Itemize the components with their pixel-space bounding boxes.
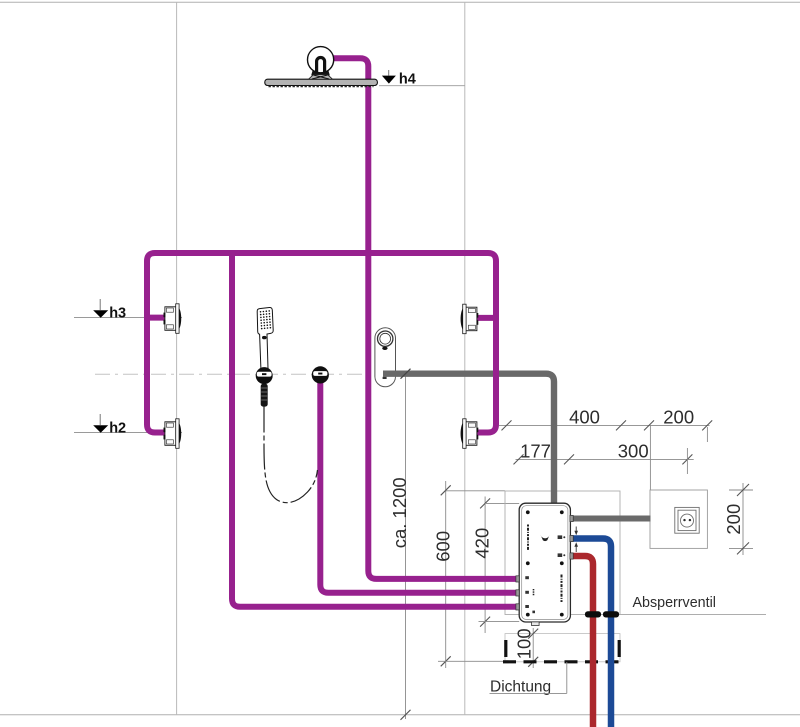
hand shower wall outlet <box>312 366 329 383</box>
svg-text:h3: h3 <box>109 305 126 321</box>
dimension 100 line <box>532 628 534 668</box>
hand shower hose <box>264 407 318 503</box>
socket circle <box>681 514 694 527</box>
screw bottom-right <box>560 613 564 617</box>
remote control oval <box>375 328 396 387</box>
tick 420 bottom <box>480 617 490 627</box>
tick 300 right <box>682 454 692 464</box>
flange cross left <box>314 75 330 79</box>
body jet upper left <box>164 304 182 334</box>
svg-text:177: 177 <box>520 440 551 461</box>
ext 200 top <box>729 489 753 491</box>
wall line left <box>176 2 178 715</box>
screw mid-left <box>526 561 530 565</box>
svg-text:Absperrventil: Absperrventil <box>633 595 716 611</box>
shut-off valve blue <box>603 611 619 617</box>
Dichtung leader <box>566 662 568 693</box>
tick 200s top <box>737 484 749 496</box>
connector stub right grey <box>570 515 573 521</box>
socket plate outer <box>675 507 699 533</box>
connector stub left 1 <box>516 576 519 582</box>
control unit inner line <box>522 506 568 620</box>
tick 100 top <box>528 629 538 639</box>
tick ca1200 top <box>401 369 411 379</box>
connector stub left 2 <box>516 590 519 596</box>
centerline hand shower height <box>95 373 552 375</box>
svg-text:h4: h4 <box>399 72 416 88</box>
shower head plate <box>265 79 378 85</box>
label strip left <box>527 525 529 552</box>
screw mid-right <box>560 561 564 565</box>
body jet upper right <box>461 304 479 334</box>
Dichtung underline <box>490 692 567 694</box>
h4 level line <box>379 85 465 87</box>
icon right lower <box>558 553 563 557</box>
dimension 420 line <box>484 497 486 634</box>
tiny mark bottom <box>532 611 535 614</box>
svg-text:400: 400 <box>569 406 600 427</box>
remote ring inner <box>380 333 391 344</box>
remote tick below pipe <box>383 377 387 379</box>
extension line socket right edge <box>706 427 708 442</box>
svg-text:300: 300 <box>618 440 649 461</box>
remote ring outer <box>378 331 393 346</box>
tick 600 top <box>441 485 451 495</box>
ext 200 bottom <box>729 547 753 549</box>
level marker h2 <box>99 414 101 425</box>
hand shower spray dots <box>260 310 272 329</box>
extension 600 bottom <box>438 660 505 662</box>
small dim arrow lower (pipe gap) <box>575 546 577 552</box>
tick 400 right <box>616 420 626 430</box>
dimension line chain top (400 / 200) <box>499 424 710 426</box>
tick ca1200 bottom <box>401 710 411 720</box>
svg-text:ca. 1200: ca. 1200 <box>389 477 410 548</box>
tick 100 bottom <box>528 657 538 667</box>
magenta stub jet upper right <box>477 315 497 321</box>
h3 level line <box>74 317 182 319</box>
tick 200 left <box>644 420 654 430</box>
connector stub left 3 <box>516 604 519 610</box>
small dim arrow upper (pipe gap) <box>575 527 577 533</box>
shut-off valve red <box>585 611 601 617</box>
construction box around control unit <box>505 491 620 615</box>
shower head flange <box>309 75 333 80</box>
icon right upper <box>558 535 563 539</box>
wall line right <box>464 2 466 715</box>
socket plate inner <box>678 510 696 530</box>
magenta stub jet upper left <box>147 315 166 321</box>
screw bottom-left <box>526 613 530 617</box>
extension line socket left edge <box>649 425 651 491</box>
svg-text:h2: h2 <box>109 420 126 436</box>
icon left stub3 <box>525 605 529 608</box>
svg-text:200: 200 <box>663 406 694 427</box>
tiny vertical text <box>533 589 535 596</box>
tick 177 left <box>514 454 524 464</box>
seal dash right <box>618 640 621 657</box>
control unit body <box>519 503 570 622</box>
logo mark center <box>540 535 549 542</box>
red pipe hot water <box>570 556 593 727</box>
magenta pipe shower head drop <box>331 58 517 579</box>
shower head neck dark <box>311 68 330 75</box>
icon left stub2 <box>525 591 529 594</box>
grey pipe box to socket <box>570 516 651 522</box>
Absperrventil reference line <box>620 614 766 616</box>
drain stub bottom <box>532 622 540 626</box>
h2 level line <box>74 432 182 434</box>
hand shower holder <box>256 367 273 384</box>
dimension line chain second (177 / 300) <box>516 458 694 460</box>
tick 420 top <box>480 498 490 508</box>
connector stub right red <box>570 553 573 559</box>
socket pin holes <box>683 519 685 521</box>
grey pipe from control to box <box>383 374 554 505</box>
svg-text:200: 200 <box>723 504 744 535</box>
ball joint <box>308 47 334 73</box>
wall socket outer box <box>650 490 707 548</box>
hand shower head <box>257 307 273 368</box>
dimension ca. 1200 line <box>405 372 407 720</box>
level marker h4 <box>388 70 390 76</box>
blue pipe cold water <box>570 539 611 727</box>
floor line <box>0 714 800 716</box>
tick 200s bottom <box>737 542 749 554</box>
ball joint arch <box>317 58 325 73</box>
tick 400 left <box>502 420 512 430</box>
label strip right <box>561 575 563 603</box>
icon left stub1 <box>525 576 529 579</box>
svg-text:600: 600 <box>433 531 454 562</box>
tick 600 bottom <box>441 656 451 666</box>
remote button <box>382 347 387 350</box>
seal box below control unit <box>505 634 620 662</box>
seal heavy dashed line bottom <box>503 660 621 663</box>
extension socket center <box>686 448 688 474</box>
level marker h3 <box>99 299 101 310</box>
svg-text:420: 420 <box>472 528 493 559</box>
body jet lower right <box>461 419 479 449</box>
hand shower grip <box>261 384 268 407</box>
flange cross right <box>312 75 328 79</box>
extension 420 top <box>485 502 519 504</box>
magenta pipe jet loop <box>147 253 496 433</box>
dimension 200 socket line <box>742 483 744 555</box>
dimension 600 line <box>445 481 447 668</box>
body jet lower left <box>164 419 182 449</box>
shower head nozzles <box>269 86 374 88</box>
magenta pipe jet feed <box>232 252 517 607</box>
svg-text:100: 100 <box>514 628 535 659</box>
screw top-left <box>526 510 530 514</box>
tick 200 right <box>702 420 712 430</box>
connector stub right blue <box>570 535 573 541</box>
seal dash left <box>504 640 507 657</box>
extension 600 top <box>446 490 505 492</box>
magenta pipe hand shower drop <box>320 381 517 593</box>
extension 420 bottom <box>479 621 520 623</box>
ceiling line <box>0 1 800 3</box>
tick 177 right <box>564 454 574 464</box>
hand shower button <box>262 336 267 339</box>
screw top-right <box>560 510 564 514</box>
